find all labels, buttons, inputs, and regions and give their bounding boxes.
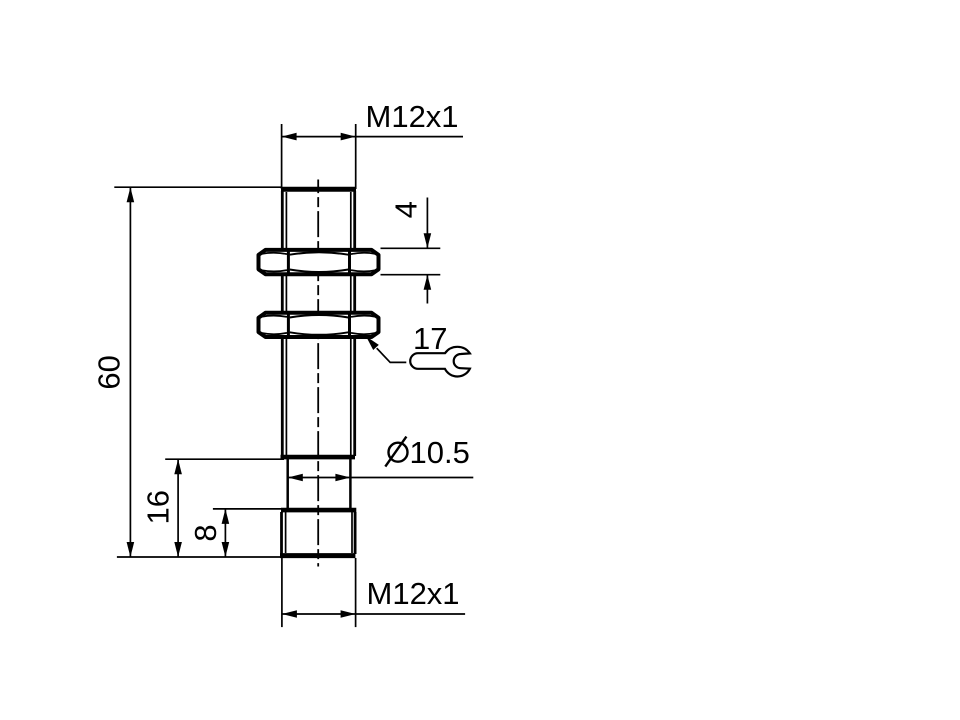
dimension 16: extension line (165, 458, 284, 460)
body bottom thread root lines (286, 512, 352, 553)
body step edge at 16mm (281, 455, 356, 460)
hex nut 2 (259, 313, 379, 337)
svg-text:60: 60 (92, 355, 127, 389)
body top thread root lines (286, 192, 350, 455)
dimension 60: dimension line (127, 187, 135, 557)
label 16 (140, 490, 175, 524)
centerline (317, 180, 319, 567)
baseline extension at bottom (117, 556, 281, 558)
dimension 8: dimension line (222, 509, 230, 557)
dimension M12x1 top: dimension line (282, 133, 463, 141)
body step edge at 8mm (281, 508, 356, 513)
svg-text:17: 17 (413, 321, 447, 356)
svg-text:8: 8 (188, 524, 223, 541)
hex nut 1 (259, 250, 379, 274)
label M12x1 top (366, 99, 459, 134)
label 4 (389, 201, 424, 218)
dimension 4: extension lines (381, 248, 441, 274)
svg-text:M12x1: M12x1 (366, 99, 459, 134)
body top thread section outer walls (282, 191, 354, 456)
dimension 4: lower stem with arrow (424, 275, 432, 304)
svg-text:10.5: 10.5 (410, 435, 470, 470)
label 17 (413, 321, 447, 356)
label 8 (188, 524, 223, 541)
leader to wrench flat 17 (366, 336, 406, 362)
svg-text:16: 16 (140, 490, 175, 524)
svg-text:M12x1: M12x1 (367, 576, 460, 611)
body bottom edge (280, 553, 355, 558)
dimension diameter 10.5: dimension line (288, 474, 474, 482)
wrench icon (410, 347, 470, 377)
dimension 16: dimension line (174, 459, 182, 557)
dimension 4: upper stem with arrow (424, 198, 432, 249)
body bottom thread section outer walls (282, 512, 356, 554)
dimension M12x1 bottom: dimension line (282, 610, 465, 618)
dimension 8: extension line (213, 508, 284, 510)
body top edge (281, 187, 356, 192)
dimension 60: extension line top (114, 186, 282, 188)
dimension M12x1 top: extension lines (282, 124, 356, 189)
label diameter 10.5 (385, 435, 470, 470)
body narrow section (diameter 10.5) walls (288, 459, 351, 509)
label 60 (92, 355, 127, 389)
svg-text:4: 4 (389, 201, 424, 218)
label M12x1 bottom (367, 576, 460, 611)
dimension M12x1 bottom: extension lines (282, 558, 356, 627)
